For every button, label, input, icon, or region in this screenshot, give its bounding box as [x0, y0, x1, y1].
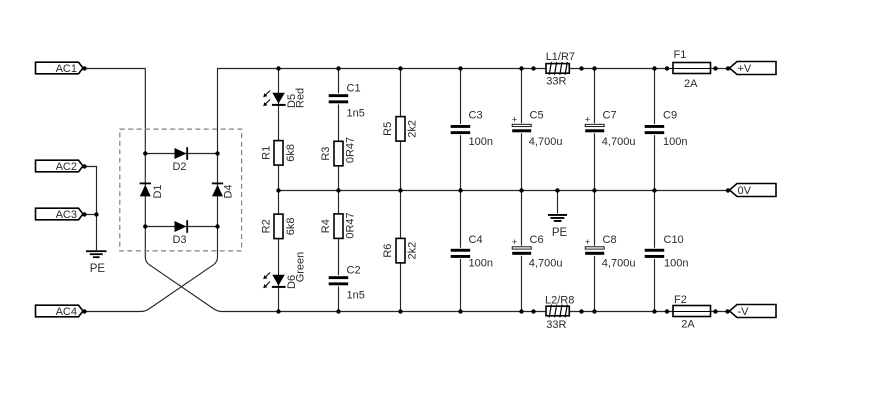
wire branch R4/C2 [338, 191, 340, 312]
svg-text:4,700u: 4,700u [602, 136, 636, 148]
svg-text:PE: PE [552, 227, 568, 239]
resistor R6 [382, 238, 419, 263]
node bottom rail F2 left pin [665, 309, 669, 313]
wire middle 0V rail [279, 190, 731, 192]
svg-text:AC2: AC2 [56, 161, 77, 173]
node AC2 pin [82, 164, 86, 168]
node bottom rail R6 branch [398, 309, 402, 313]
svg-text:2k2: 2k2 [407, 120, 419, 138]
resistor R2 [260, 214, 297, 239]
node top rail L1 right pin [579, 66, 583, 70]
connector AC3 [36, 208, 84, 221]
node mid rail C7 branch [592, 188, 596, 192]
connector AC1 [36, 62, 84, 75]
node mid rail C5 branch [519, 188, 523, 192]
resistor R1 [260, 141, 297, 166]
wire branch C8 [594, 191, 596, 312]
node +V pin [726, 66, 730, 70]
node bottom rail L2 left pin [531, 309, 535, 313]
svg-text:R6: R6 [382, 244, 394, 258]
node top rail R5 branch [398, 66, 402, 70]
wire branch C5 [521, 69, 523, 191]
wire branch C1/R3 [338, 69, 340, 191]
node mid rail C3 branch [458, 188, 462, 192]
svg-text:L1/R7: L1/R7 [546, 51, 575, 63]
svg-text:1n5: 1n5 [347, 108, 365, 120]
fuse F1 [673, 49, 711, 90]
node top rail F1 left pin [665, 66, 669, 70]
svg-text:D4: D4 [222, 184, 234, 198]
svg-text:Green: Green [294, 252, 306, 283]
node mid rail R5 branch [398, 188, 402, 192]
svg-text:AC1: AC1 [56, 63, 77, 75]
node mid rail PE stub [555, 188, 559, 192]
node bridge D3 left [143, 224, 147, 228]
wire AC1 to bridge left leg, diagonal to bottom rail, bottom rail east [85, 69, 731, 312]
wire AC4 to diagonal up, bridge right leg, top rail east [85, 69, 730, 312]
capacitor C7 (electrolytic) [584, 110, 635, 148]
node top rail C1 branch [336, 66, 340, 70]
svg-text:6k8: 6k8 [285, 144, 297, 162]
wire bridge D2 row [145, 153, 217, 155]
capacitor C1 [328, 83, 365, 120]
node top rail F1 right pin [713, 66, 717, 70]
node bottom rail C2 branch [336, 309, 340, 313]
ground PE (0V rail) [548, 214, 567, 239]
svg-text:C3: C3 [469, 110, 483, 122]
LED D6 (Green) [263, 252, 306, 289]
svg-text:C6: C6 [530, 234, 544, 246]
svg-text:C8: C8 [603, 234, 617, 246]
svg-text:+V: +V [738, 63, 752, 75]
node top rail C5 branch [519, 66, 523, 70]
capacitor C6 (electrolytic) [511, 234, 562, 270]
capacitor C4 [450, 234, 493, 270]
wire branch C6 [521, 191, 523, 312]
wire branch R2/D6 [278, 191, 280, 312]
svg-text:D1: D1 [152, 184, 164, 198]
node bridge D2 right [215, 151, 219, 155]
resistor R4 [320, 212, 357, 238]
svg-text:PE: PE [90, 263, 106, 275]
wire branch C10 [654, 191, 656, 312]
node AC3 junction [94, 212, 98, 216]
svg-text:C2: C2 [347, 265, 361, 277]
svg-text:R5: R5 [382, 122, 394, 136]
node bridge D3 right [215, 224, 219, 228]
diode D1 [140, 183, 165, 199]
node top rail D5 branch [276, 66, 280, 70]
resistor R5 [382, 117, 419, 142]
connector AC2 [36, 160, 84, 173]
svg-text:C5: C5 [530, 110, 544, 122]
wire branch LED D5/R1 [278, 69, 280, 191]
capacitor C9 [644, 110, 687, 148]
wire bridge D3 row [145, 226, 217, 228]
svg-text:R2: R2 [260, 219, 272, 233]
svg-text:F2: F2 [674, 294, 687, 306]
diode D3 [172, 220, 188, 246]
capacitor C10 [644, 234, 688, 270]
svg-text:100n: 100n [664, 258, 688, 270]
wire branch C3 [460, 69, 462, 191]
wire branch C4 [460, 191, 462, 312]
svg-text:R1: R1 [260, 146, 272, 160]
svg-text:4,700u: 4,700u [602, 258, 636, 270]
node bottom rail L2 right pin [579, 309, 583, 313]
svg-text:+: + [585, 115, 591, 126]
node AC3 pin [82, 212, 86, 216]
inductor L1/R7 [546, 51, 575, 88]
node 0V pin [726, 188, 730, 192]
svg-text:100n: 100n [663, 136, 687, 148]
node bottom rail C4 branch [458, 309, 462, 313]
node bottom rail F2 right pin [713, 309, 717, 313]
connector AC4 [36, 305, 84, 318]
svg-text:100n: 100n [469, 258, 493, 270]
connector +V [730, 62, 777, 76]
svg-text:-V: -V [738, 306, 750, 318]
svg-text:0R47: 0R47 [345, 212, 357, 238]
svg-text:D2: D2 [172, 161, 186, 173]
resistor R3 [320, 137, 357, 166]
svg-text:6k8: 6k8 [285, 217, 297, 235]
capacitor C3 [450, 110, 493, 148]
svg-text:33R: 33R [546, 319, 566, 331]
node bridge D2 left [143, 151, 147, 155]
svg-text:0V: 0V [738, 185, 752, 197]
wire PE stub at 0V rail [557, 191, 559, 214]
wire branch C9 [654, 69, 656, 191]
wire branch R6 [400, 191, 402, 312]
svg-text:100n: 100n [469, 136, 493, 148]
capacitor C2 [328, 265, 365, 302]
node AC1 pin [82, 66, 86, 70]
diode D4 [212, 183, 235, 199]
wire AC2 to PE vertical [85, 167, 97, 251]
node mid rail C1 branch [336, 188, 340, 192]
svg-text:0R47: 0R47 [345, 137, 357, 163]
wire branch C7 [594, 69, 596, 191]
node bottom rail C10 branch [652, 309, 656, 313]
svg-text:33R: 33R [546, 76, 566, 88]
svg-text:2A: 2A [684, 78, 698, 90]
node bottom rail C6 branch [519, 309, 523, 313]
svg-text:+: + [512, 115, 518, 126]
capacitor C5 (electrolytic) [511, 110, 562, 148]
svg-text:4,700u: 4,700u [529, 136, 563, 148]
node mid rail D5 branch [276, 188, 280, 192]
node -V pin [725, 309, 729, 313]
node bottom rail C8 branch [592, 309, 596, 313]
svg-text:+: + [585, 237, 591, 248]
connector -V [730, 305, 777, 319]
svg-text:2k2: 2k2 [407, 242, 419, 260]
svg-text:Red: Red [294, 88, 306, 108]
node top rail C9 branch [652, 66, 656, 70]
svg-text:AC3: AC3 [56, 209, 77, 221]
svg-text:C4: C4 [469, 234, 483, 246]
bridge dashed outline [120, 129, 242, 251]
node mid rail C9 branch [652, 188, 656, 192]
node top rail C3 branch [458, 66, 462, 70]
svg-text:L2/R8: L2/R8 [545, 294, 574, 306]
wire branch R5 [400, 69, 402, 191]
svg-text:C7: C7 [603, 110, 617, 122]
connector 0V [730, 184, 777, 198]
node bottom rail D6 branch [276, 309, 280, 313]
svg-text:C9: C9 [663, 110, 677, 122]
diode D2 [172, 147, 188, 173]
LED D5 (Red) [263, 88, 306, 108]
svg-text:4,700u: 4,700u [529, 258, 563, 270]
svg-text:D3: D3 [172, 234, 186, 246]
svg-text:+: + [512, 237, 518, 248]
svg-text:C1: C1 [347, 83, 361, 95]
capacitor C8 (electrolytic) [584, 234, 635, 270]
svg-text:2A: 2A [681, 319, 695, 331]
svg-text:AC4: AC4 [56, 306, 77, 318]
svg-text:1n5: 1n5 [347, 289, 365, 301]
ground PE (input side) [86, 250, 107, 275]
svg-text:C10: C10 [664, 234, 684, 246]
node top rail C7 branch [592, 66, 596, 70]
svg-text:F1: F1 [674, 49, 687, 61]
svg-text:R4: R4 [320, 219, 332, 233]
wire AC3 stub [85, 214, 98, 216]
node top rail L1 left pin [531, 66, 535, 70]
inductor L2/R8 [545, 294, 574, 331]
node AC4 pin [82, 309, 86, 313]
fuse F2 [673, 294, 711, 331]
svg-text:R3: R3 [320, 147, 332, 161]
